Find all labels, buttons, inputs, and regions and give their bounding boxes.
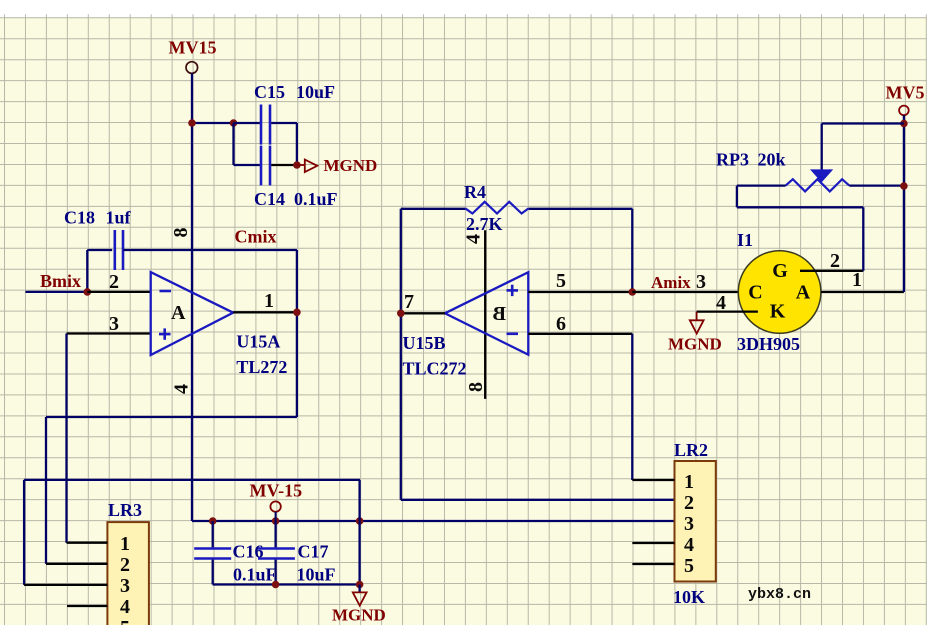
- connector LR3 pin 1: [67, 542, 108, 544]
- svg-text:I1: I1: [737, 230, 753, 250]
- optocoupler I1 body: [738, 251, 821, 334]
- svg-text:5: 5: [556, 270, 566, 292]
- wire MV5 vertical: [903, 115, 905, 292]
- wire C18 left: [87, 249, 112, 251]
- wire output right vertical: [296, 250, 298, 417]
- svg-text:1: 1: [264, 290, 274, 312]
- optocoupler I1 pin 1: [821, 291, 904, 293]
- wire C15 right lead: [271, 122, 297, 124]
- wire pin6 down: [631, 334, 633, 480]
- junction rail MGND branch: [356, 517, 364, 525]
- svg-text:2: 2: [120, 554, 130, 576]
- op-amp U15A pin 3: [67, 332, 151, 334]
- wire RP3 right lead: [849, 184, 904, 186]
- wire Cmix net: [123, 249, 297, 251]
- svg-text:MV5: MV5: [886, 83, 925, 103]
- svg-text:Bmix: Bmix: [40, 271, 81, 291]
- connector LR3 pin 3: [24, 584, 107, 586]
- potentiometer RP3 wiper: [812, 170, 831, 181]
- wire left vertical to LR3 pin3: [23, 480, 25, 585]
- svg-text:TLC272: TLC272: [403, 358, 467, 378]
- svg-text:1: 1: [684, 471, 694, 493]
- wire C14 right lead: [271, 164, 297, 166]
- wire pin3 vertical: [65, 334, 67, 543]
- junction MV5 top: [900, 120, 908, 128]
- svg-text:C18: C18: [64, 208, 95, 228]
- connector LR2 pin 4: [632, 542, 674, 544]
- capacitor C14: [260, 146, 263, 186]
- wire MV15 to C15: [192, 122, 234, 124]
- capacitor C16: [212, 521, 214, 547]
- svg-text:2: 2: [109, 271, 119, 293]
- junction RP3 right: [900, 182, 908, 190]
- svg-text:R4: R4: [464, 182, 486, 202]
- optocoupler I1 pin 4: [697, 310, 758, 312]
- svg-text:K: K: [770, 301, 786, 323]
- svg-text:LR2: LR2: [674, 440, 708, 460]
- ground MGND top: [297, 164, 305, 166]
- optocoupler I1 pin 2: [800, 270, 863, 272]
- svg-text:A: A: [171, 302, 186, 324]
- junction rail C16: [209, 517, 217, 525]
- svg-text:G: G: [772, 260, 788, 282]
- svg-text:1: 1: [120, 533, 130, 555]
- svg-text:20k: 20k: [758, 150, 786, 170]
- svg-text:B: B: [493, 303, 506, 325]
- svg-text:C: C: [748, 282, 762, 304]
- svg-text:3: 3: [109, 313, 119, 335]
- resistor R4: [465, 202, 529, 214]
- svg-text:Amix: Amix: [651, 273, 691, 292]
- svg-text:C17: C17: [298, 542, 329, 562]
- svg-text:4: 4: [463, 234, 485, 244]
- wire output loop horizontal: [46, 416, 297, 418]
- svg-text:3: 3: [696, 271, 706, 293]
- svg-text:C15: C15: [254, 82, 285, 102]
- svg-text:MV15: MV15: [169, 38, 217, 58]
- wire loop left vertical: [45, 417, 47, 564]
- svg-text:1uf: 1uf: [106, 208, 132, 228]
- connector LR2 pin 5: [632, 563, 674, 565]
- wire bottom rail: [213, 583, 360, 585]
- svg-text:3: 3: [684, 513, 694, 535]
- junction at MV15 line: [188, 119, 196, 127]
- svg-text:1: 1: [852, 269, 862, 291]
- op-amp U15B pin 7: [401, 312, 445, 314]
- op-amp U15A pin 2: [87, 291, 150, 293]
- op-amp U15A body: [151, 272, 234, 355]
- wire Amix: [632, 291, 738, 293]
- capacitor C18: [114, 230, 117, 270]
- junction bottom rail MGND: [356, 581, 364, 589]
- svg-text:3DH905: 3DH905: [737, 334, 800, 354]
- svg-text:C14: C14: [254, 189, 285, 209]
- svg-text:4: 4: [120, 596, 130, 618]
- capacitor C15: [260, 105, 263, 145]
- wire to LR2 pin2: [401, 499, 675, 501]
- ground MGND I1: [696, 312, 698, 320]
- svg-text:4: 4: [170, 384, 192, 394]
- svg-text:LR3: LR3: [108, 500, 142, 520]
- connector LR2 body: [675, 461, 716, 582]
- capacitor C17: [274, 521, 276, 547]
- junction U15A output: [293, 309, 301, 317]
- svg-text:4: 4: [684, 534, 694, 556]
- svg-text:Cmix: Cmix: [235, 227, 277, 247]
- power port MV15: [186, 62, 198, 74]
- svg-text:3: 3: [120, 575, 130, 597]
- wire C15 left lead: [234, 122, 260, 124]
- svg-text:MGND: MGND: [332, 606, 386, 625]
- wire MGND branch vertical: [358, 480, 360, 585]
- svg-text:5: 5: [684, 555, 694, 577]
- wire rail MV-15: [192, 520, 675, 522]
- junction C14 right: [293, 161, 301, 169]
- wire U15B feedback top left: [401, 208, 465, 210]
- svg-text:8: 8: [465, 382, 487, 392]
- svg-text:TL272: TL272: [236, 357, 287, 377]
- potentiometer RP3: [786, 179, 850, 191]
- svg-text:0.1uF: 0.1uF: [294, 189, 338, 209]
- op-amp U15B pin 5: [528, 291, 632, 293]
- power port MV-15: [270, 501, 280, 511]
- svg-text:MV-15: MV-15: [250, 481, 303, 501]
- svg-text:5: 5: [120, 617, 130, 625]
- svg-text:4: 4: [716, 292, 726, 314]
- op-amp U15A pin 1: [233, 311, 297, 313]
- wire Bmix-LR3 long horizontal: [24, 479, 360, 481]
- power port MV5: [899, 106, 909, 116]
- junction C15 left: [230, 119, 238, 127]
- op-amp U15B body: [445, 272, 528, 355]
- wire feedback right vertical: [631, 209, 633, 292]
- svg-text:MGND: MGND: [324, 156, 378, 175]
- wire C14 left vertical: [232, 123, 234, 165]
- junction Bmix: [84, 288, 92, 296]
- connector LR3 body: [107, 522, 148, 625]
- op-amp U15B pin 6: [528, 333, 632, 335]
- svg-text:MGND: MGND: [668, 335, 722, 354]
- wire U15B left vertical: [400, 209, 402, 500]
- junction bottom rail C17: [272, 581, 280, 589]
- svg-text:10uF: 10uF: [297, 565, 336, 585]
- svg-text:U15B: U15B: [403, 333, 446, 353]
- svg-text:0.1uF: 0.1uF: [233, 565, 277, 585]
- svg-text:2: 2: [684, 492, 694, 514]
- connector LR3 pin 4: [67, 605, 107, 607]
- svg-text:10uF: 10uF: [296, 82, 335, 102]
- svg-text:U15A: U15A: [236, 332, 280, 352]
- svg-text:ybx8.cn: ybx8.cn: [748, 586, 811, 603]
- connector LR3 pin 2: [46, 563, 107, 565]
- wire RP3 left lead: [737, 184, 786, 186]
- svg-text:6: 6: [556, 313, 566, 335]
- svg-text:2: 2: [830, 250, 840, 272]
- node Bmix wire: [25, 291, 87, 293]
- svg-text:RP3: RP3: [716, 150, 749, 170]
- svg-text:8: 8: [170, 228, 192, 238]
- connector LR2 pin 1: [632, 479, 674, 481]
- svg-text:7: 7: [404, 291, 414, 313]
- junction rail MV-15: [272, 517, 280, 525]
- svg-text:A: A: [796, 282, 811, 304]
- junction Amix: [629, 288, 637, 296]
- op-amp U15B pin 4 vertical: [484, 230, 486, 399]
- svg-text:10K: 10K: [673, 587, 705, 607]
- wire wiper top horizontal: [822, 122, 904, 124]
- wire R4 right lead: [529, 208, 633, 210]
- ground MGND bottom: [358, 585, 360, 593]
- junction U15B output: [397, 310, 405, 318]
- wire MV15 vertical main: [191, 73, 193, 521]
